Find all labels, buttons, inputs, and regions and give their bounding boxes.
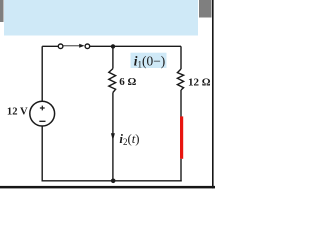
wire: top-left segment from corner to switch: [42, 45, 58, 47]
svg-text:i2(t): i2(t): [119, 132, 139, 147]
svg-text:12 V: 12 V: [7, 107, 28, 118]
slide bottom border band: [0, 186, 215, 189]
resistor 6 ohm zigzag: [109, 69, 116, 93]
switch arrowhead: [79, 44, 84, 48]
svg-text:12 Ω: 12 Ω: [188, 77, 211, 89]
svg-text:6 Ω: 6 Ω: [119, 76, 136, 88]
switch terminal circle (right): [85, 44, 90, 49]
wire: middle branch lower (resistor to node B): [112, 93, 114, 182]
highlight box behind i1 label: [131, 53, 167, 68]
voltage source plus sign: [40, 106, 45, 111]
header highlight band (slide background): [4, 0, 198, 36]
node B junction dot (bottom): [111, 179, 116, 184]
wire: top middle segment from switch to node A: [90, 45, 113, 47]
inductor element highlighted red bar: [180, 116, 183, 158]
gray block top-right: [199, 0, 212, 18]
wire: middle branch upper (node A to resistor): [112, 46, 114, 68]
wire: left branch upper (corner to source top): [41, 46, 43, 101]
voltage source V1 circle: [30, 101, 55, 126]
node A junction dot (top): [111, 44, 115, 48]
wire: right branch middle (resistor to inductor): [180, 90, 182, 117]
gray tab top-left: [0, 0, 4, 22]
slide right border line: [212, 0, 214, 188]
current direction arrowhead i2: [111, 133, 115, 140]
switch terminal circle (left): [58, 44, 63, 49]
wire: bottom horizontal: [42, 180, 182, 182]
wire: top right segment from node A to right corner: [113, 45, 181, 47]
wire: left branch lower (source bottom to bottom wire): [41, 126, 43, 182]
switch blade line with motion arrow: [64, 45, 80, 47]
voltage source minus sign: [39, 120, 45, 122]
wire: right branch lower (inductor to bottom wire): [180, 159, 182, 182]
resistor 12 ohm zigzag: [177, 69, 183, 90]
wire: right branch upper (corner to resistor): [180, 46, 182, 69]
